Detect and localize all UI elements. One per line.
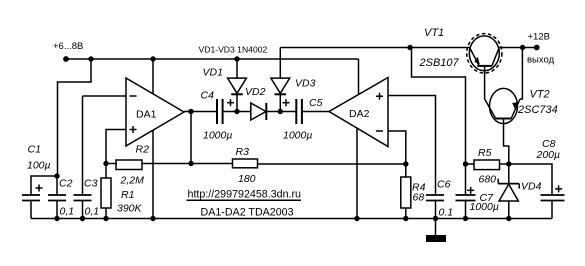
svg-text:+12В: +12В (528, 31, 550, 42)
label C1 (28, 144, 41, 156)
resistor R5 (466, 160, 509, 170)
node VD4 ground (506, 216, 511, 221)
label title TDA2003 (201, 206, 294, 218)
wire DA2 ground pin (356, 129, 358, 219)
capacitor C7 (456, 164, 476, 219)
wire DA1 inverting input (83, 95, 127, 97)
wire DA2 inverting input (388, 131, 406, 164)
svg-text:C6: C6 (437, 179, 451, 191)
wire DA2 noninverting input to C6 (388, 96, 436, 196)
svg-text:DA1-DA2 TDA2003: DA1-DA2 TDA2003 (201, 206, 294, 218)
node R2 R3 output junction (188, 161, 193, 166)
capacitor C4 (217, 99, 251, 124)
node C1 C2 junction (54, 173, 59, 178)
svg-text:C5: C5 (309, 97, 323, 109)
pin DA1 minus (130, 95, 137, 97)
wire feedback from output down (190, 112, 192, 164)
node C6 ground (433, 216, 438, 221)
node R3 R4 DA2 junction (403, 161, 408, 166)
wire R5 node to C8 (509, 164, 552, 195)
node R1 ground (103, 216, 108, 221)
node C2 ground (54, 216, 59, 221)
svg-text:VD4: VD4 (521, 181, 542, 193)
diode VD4 zener (498, 164, 519, 219)
capacitor C2 (48, 176, 66, 219)
label VT1 type (419, 57, 460, 69)
node DA1 power tap (150, 56, 155, 61)
label VD4 (521, 181, 542, 193)
label R3 (236, 146, 250, 158)
svg-text:2,2M: 2,2M (120, 175, 145, 187)
label site url (188, 189, 302, 201)
label +12V (528, 31, 550, 42)
capacitor C1 (22, 176, 57, 219)
node C7 ground (463, 216, 468, 221)
node DA1 ground (150, 216, 155, 221)
wire VT1 collector to output (499, 47, 537, 49)
transistor VT1 (467, 34, 502, 99)
wire VD1 anode riser (236, 59, 238, 78)
resistor R1 (101, 164, 111, 219)
label R3 value (238, 173, 256, 185)
node DA2 ground (354, 216, 359, 221)
svg-text:C4: C4 (201, 90, 215, 102)
svg-text:C1: C1 (28, 144, 41, 156)
label R2 (136, 144, 150, 156)
resistor R2 (106, 160, 191, 170)
label VT2 type (517, 104, 558, 116)
svg-text:C3: C3 (84, 178, 98, 190)
label C4 value (203, 130, 232, 142)
svg-text:2SB107: 2SB107 (419, 57, 460, 69)
node supply input terminal (63, 56, 69, 62)
label url underline (187, 199, 302, 201)
svg-text:1000µ: 1000µ (283, 130, 312, 142)
wire raw 12V line (280, 47, 410, 49)
node rail junction A (88, 56, 93, 61)
node R5 VD4 VT2 junction (506, 161, 511, 166)
svg-text:100µ: 100µ (27, 160, 51, 172)
label DA2 (349, 108, 370, 120)
wire bottom ground rail (31, 218, 552, 220)
label C4 (201, 90, 215, 102)
label C6 (437, 179, 451, 191)
ground symbol (426, 219, 446, 243)
label R1 value (117, 203, 143, 215)
wire DA1 output (184, 111, 217, 113)
svg-text:1000µ: 1000µ (470, 201, 499, 213)
svg-text:R5: R5 (478, 147, 492, 159)
node output terminal (534, 45, 540, 51)
label DA1 (136, 109, 157, 121)
op-amp DA1 (126, 78, 184, 146)
node R1 R2 junction (103, 161, 108, 166)
label C3 (84, 178, 98, 190)
svg-text:68: 68 (413, 192, 425, 204)
label C3 value (85, 206, 100, 218)
node VD2 VD3 junction (278, 109, 283, 114)
polarity C8 plus (555, 185, 562, 192)
label VD1 (203, 67, 223, 79)
polarity C7 plus (467, 187, 474, 194)
op-amp DA2 (329, 78, 388, 147)
pin DA2 minus (376, 130, 383, 132)
polarity C4 plus (227, 99, 234, 106)
wire DA1 noninverting input (106, 130, 126, 164)
svg-text:390K: 390K (117, 203, 143, 215)
node DA1 output (188, 109, 193, 114)
label C7 (480, 192, 495, 204)
svg-text:http://299792458.3dn.ru: http://299792458.3dn.ru (188, 189, 302, 201)
svg-text:R3: R3 (236, 146, 250, 158)
label R2 value (120, 175, 145, 187)
label C8 value (536, 149, 561, 161)
transistor VT2 (485, 48, 523, 165)
diode VD2 (251, 103, 280, 120)
node VD1 cathode (234, 109, 239, 114)
label C2 (59, 178, 73, 190)
capacitor C8 (541, 195, 565, 219)
capacitor C6 (426, 195, 444, 219)
label VT1 (424, 27, 444, 39)
wire DA1 ground pin (152, 130, 154, 218)
svg-text:VD1: VD1 (203, 67, 223, 79)
node VD1 rail tap (234, 56, 239, 61)
svg-text:2SC734: 2SC734 (517, 104, 558, 116)
svg-text:180: 180 (238, 173, 256, 185)
label C7 value (470, 201, 499, 213)
resistor R4 (401, 164, 411, 219)
label R4 value (413, 192, 425, 204)
node output branch (520, 45, 525, 50)
label R5 value (479, 173, 497, 185)
label supply (53, 41, 83, 52)
svg-text:DA2: DA2 (349, 108, 370, 120)
wire raw 12V to VT2 base network (412, 48, 466, 165)
svg-text:VT2: VT2 (530, 89, 550, 101)
label R4 (412, 182, 426, 194)
node raw 12V junction (407, 45, 412, 50)
svg-text:0.1: 0.1 (439, 207, 454, 219)
label VD1-VD3 type (199, 45, 268, 55)
label R1 (121, 189, 134, 201)
polarity C1 plus (36, 185, 43, 192)
node R5 C7 junction (463, 161, 468, 166)
capacitor C5 (280, 99, 329, 124)
svg-text:0,1: 0,1 (60, 206, 75, 218)
label C5 value (283, 130, 312, 142)
wire DA2 power pin from rail (358, 59, 360, 96)
pin DA2 plus (376, 93, 383, 100)
label VD2 (245, 86, 266, 98)
polarity C5 plus (283, 99, 290, 106)
resistor R3 (191, 159, 406, 168)
label output (527, 55, 555, 66)
wire from rail to C1/C2 junction (58, 59, 92, 176)
svg-text:выход: выход (527, 55, 555, 66)
diode VD3 (271, 78, 290, 111)
label C2 value (60, 206, 75, 218)
pin DA1 plus (130, 126, 137, 133)
svg-text:VD1-VD3 1N4002: VD1-VD3 1N4002 (199, 45, 268, 55)
capacitor C3 (74, 96, 92, 219)
svg-text:VD2: VD2 (245, 86, 266, 98)
svg-text:VD3: VD3 (295, 78, 316, 90)
svg-text:R1: R1 (121, 189, 134, 201)
label C8 (542, 138, 556, 150)
wire raw 12V line to VT1 emitter (410, 47, 469, 49)
svg-text:VT1: VT1 (424, 27, 444, 39)
svg-text:R2: R2 (136, 144, 150, 156)
svg-text:680: 680 (479, 173, 497, 185)
svg-text:+6...8В: +6...8В (53, 41, 83, 52)
svg-text:200µ: 200µ (536, 149, 561, 161)
label C1 value (27, 160, 51, 172)
wire DA1 power pin (152, 59, 154, 94)
label C5 (309, 97, 323, 109)
wire VD3 anode riser to 12V line (279, 48, 281, 79)
svg-text:1000µ: 1000µ (203, 130, 232, 142)
node R4 ground (403, 216, 408, 221)
diode VD1 (228, 78, 247, 111)
svg-text:0,1: 0,1 (85, 206, 100, 218)
svg-text:C2: C2 (59, 178, 73, 190)
label VT2 (530, 89, 550, 101)
svg-text:DA1: DA1 (136, 109, 157, 121)
label R5 (478, 147, 492, 159)
label C6 value (439, 207, 454, 219)
wire top +6..8V rail (66, 58, 359, 60)
label VD3 (295, 78, 316, 90)
node C3 ground (80, 216, 85, 221)
